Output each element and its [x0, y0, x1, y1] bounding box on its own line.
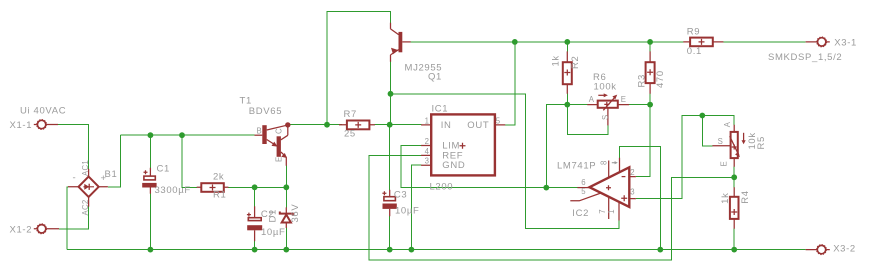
wire positive rail to T1 base	[121, 134, 255, 136]
svg-text:470: 470	[655, 70, 666, 88]
wire C2 top lead	[254, 187, 256, 206]
svg-text:10µF: 10µF	[261, 227, 285, 238]
node R5 bus	[699, 113, 705, 119]
svg-text:OUT: OUT	[467, 120, 489, 131]
wire bottom ground rail	[67, 249, 806, 251]
node top loop	[324, 122, 330, 128]
node rail D1	[283, 247, 289, 253]
wire C1 bottom branch	[149, 194, 151, 250]
svg-text:A: A	[723, 121, 732, 127]
svg-text:25: 25	[344, 129, 356, 140]
node feedback op-amp output	[543, 185, 549, 191]
wire R3 top	[649, 42, 651, 52]
svg-text:E: E	[621, 95, 627, 104]
node C1 top	[148, 132, 154, 138]
svg-text:R9: R9	[687, 26, 700, 37]
svg-text:8: 8	[599, 160, 608, 165]
terminal X1-1	[34, 120, 58, 129]
node R2 top	[564, 39, 570, 45]
node rail C2	[252, 247, 258, 253]
svg-text:AC2: AC2	[81, 199, 90, 215]
wire IC1 REF to lower rail to R5 node	[369, 155, 734, 260]
svg-text:7: 7	[598, 209, 607, 214]
resistor R1	[197, 183, 229, 192]
svg-text:X3-2: X3-2	[833, 244, 856, 255]
wire R5 S to bus	[702, 116, 712, 146]
svg-text:T1: T1	[240, 95, 252, 106]
wire R4 top	[733, 177, 735, 187]
node rail R4	[731, 247, 737, 253]
svg-text:D1: D1	[268, 209, 279, 222]
svg-text:36V: 36V	[290, 204, 301, 223]
bridge rectifier B1	[68, 169, 108, 207]
svg-text:C3: C3	[394, 190, 407, 201]
svg-text:3: 3	[630, 187, 635, 196]
wire top loop to Q1 emitter	[327, 11, 391, 124]
wire R5 E to R4 node	[733, 167, 735, 178]
svg-text:L200: L200	[430, 181, 454, 192]
wire C3 top from IN node	[389, 125, 391, 190]
resistor R2	[563, 51, 572, 93]
wire R6 E to R3 node	[629, 104, 650, 106]
transistor Q1 MJ2955	[391, 23, 411, 62]
svg-text:5: 5	[581, 187, 586, 196]
svg-text:S: S	[601, 114, 610, 120]
svg-text:AC1: AC1	[81, 160, 90, 176]
wire R3 bottom	[649, 94, 651, 105]
svg-text:X1-2: X1-2	[10, 224, 33, 235]
wire bridge minus to bottom rail	[67, 187, 68, 250]
node T1 collector	[285, 122, 290, 127]
terminal X1-2	[34, 224, 59, 233]
svg-text:1k: 1k	[720, 192, 731, 203]
wire X1-1 to bridge AC1	[58, 125, 89, 170]
op-amp IC2 LM741P	[570, 158, 636, 221]
svg-text:IC2: IC2	[572, 208, 589, 219]
node OUT rail	[512, 39, 518, 45]
IC1 L200 regulator	[421, 114, 505, 175]
svg-text:B: B	[257, 126, 263, 135]
wire D1 bottom lead	[285, 228, 287, 250]
terminal X3-2	[806, 245, 830, 254]
resistor R4	[730, 187, 739, 229]
svg-text:2: 2	[425, 137, 430, 146]
wire R2 bottom to node	[566, 94, 568, 105]
resistor R7	[339, 121, 375, 130]
wire R6 A to feedback node	[546, 105, 587, 188]
svg-text:IC1: IC1	[432, 103, 449, 114]
node R2 bottom R6	[564, 102, 570, 108]
wire R1 to C2 D1 node	[228, 186, 286, 188]
trimmer R5	[712, 125, 745, 167]
svg-text:IN: IN	[441, 120, 452, 131]
svg-text:Q1: Q1	[428, 72, 442, 83]
svg-text:C: C	[275, 128, 284, 134]
svg-text:X3-1: X3-1	[834, 37, 857, 48]
svg-text:A: A	[589, 95, 595, 104]
wire IC1 LIM to op-amp output	[401, 146, 580, 188]
svg-text:2k: 2k	[213, 171, 224, 182]
node R3 bottom pin2	[647, 102, 653, 108]
capacitor C1	[142, 168, 156, 194]
svg-text:5: 5	[496, 116, 501, 125]
trimmer R6	[587, 93, 629, 125]
svg-text:S: S	[718, 137, 724, 146]
zener diode D1	[280, 207, 293, 228]
svg-text:GND: GND	[442, 160, 465, 171]
svg-text:BDV65: BDV65	[249, 106, 282, 117]
wire R1 branch from positive rail	[182, 135, 197, 187]
wire op-amp offset pin to ground rail	[620, 147, 661, 250]
svg-text:R4: R4	[740, 190, 751, 203]
node rail C1	[148, 247, 154, 253]
svg-text:4: 4	[425, 147, 430, 156]
svg-text:2: 2	[630, 168, 635, 177]
resistor R9	[683, 38, 723, 47]
svg-text:3300µF: 3300µF	[155, 185, 191, 196]
svg-text:R3: R3	[637, 74, 648, 87]
terminal X3-1	[806, 37, 830, 46]
wire X1-2 to bridge AC2	[59, 207, 89, 229]
wire R7 to IC1 IN	[375, 124, 422, 126]
node rail GND	[409, 247, 415, 253]
wire IC1 GND down	[411, 165, 421, 249]
wire bridge plus riser	[108, 135, 121, 187]
wire Q1 collector to IC2 supply	[391, 94, 620, 229]
svg-text:3: 3	[425, 156, 430, 165]
svg-text:100k: 100k	[594, 81, 617, 92]
svg-text:R2: R2	[570, 56, 581, 69]
wire IC1 OUT up to output rail	[505, 42, 515, 125]
capacitor C2	[247, 206, 262, 241]
wire R4 bottom to rail	[733, 229, 735, 250]
svg-text:X1-1: X1-1	[10, 120, 33, 131]
node C2 top	[252, 184, 258, 190]
svg-text:10µF: 10µF	[395, 205, 419, 216]
svg-text:E: E	[719, 161, 728, 167]
node rail C3	[387, 247, 393, 253]
transistor T1 darlington BDV65	[255, 122, 291, 165]
svg-text:Ui 40VAC: Ui 40VAC	[20, 106, 66, 117]
svg-text:0.1: 0.1	[687, 46, 702, 57]
node R5 E R4	[731, 174, 737, 180]
wire op-amp pin2 riser	[636, 105, 650, 177]
wire op-amp pin3 to R5 bus	[636, 116, 734, 199]
wire R6 S loop	[567, 105, 608, 135]
wire T1 emitter down	[285, 166, 287, 188]
wire D1 top lead	[285, 187, 287, 207]
svg-text:R5: R5	[756, 136, 767, 149]
wire Q1 collector down to IN node	[390, 62, 392, 125]
wire C3 bottom	[389, 216, 391, 250]
wire Q1 base output rail	[411, 41, 684, 43]
node R1 branch	[179, 132, 185, 138]
svg-text:R7: R7	[344, 109, 357, 120]
wire R9 to X3-1	[723, 41, 805, 43]
node Q1 collector branch	[388, 91, 394, 97]
node D1 top	[283, 184, 289, 190]
wire T1 collector to R7	[290, 124, 342, 126]
resistor R3	[646, 51, 655, 93]
svg-text:1: 1	[607, 209, 616, 214]
svg-text:SMKDSP_1,5/2: SMKDSP_1,5/2	[768, 52, 842, 63]
svg-text:1: 1	[425, 116, 430, 125]
svg-text:6: 6	[581, 178, 586, 187]
node R3 top	[647, 39, 653, 45]
node IN C3	[387, 122, 393, 128]
svg-text:R1: R1	[213, 190, 226, 201]
svg-text:1k: 1k	[551, 55, 562, 66]
svg-text:E: E	[275, 156, 284, 162]
svg-text:LM741P: LM741P	[557, 161, 596, 172]
node rail offset	[657, 247, 663, 253]
wire C1 top branch	[149, 135, 151, 168]
wire R2 top	[566, 42, 568, 52]
svg-text:C1: C1	[157, 164, 170, 175]
wire C2 bottom lead	[254, 241, 256, 250]
capacitor C3	[382, 190, 396, 216]
svg-text:-: -	[73, 173, 77, 184]
svg-text:+: +	[101, 173, 107, 184]
